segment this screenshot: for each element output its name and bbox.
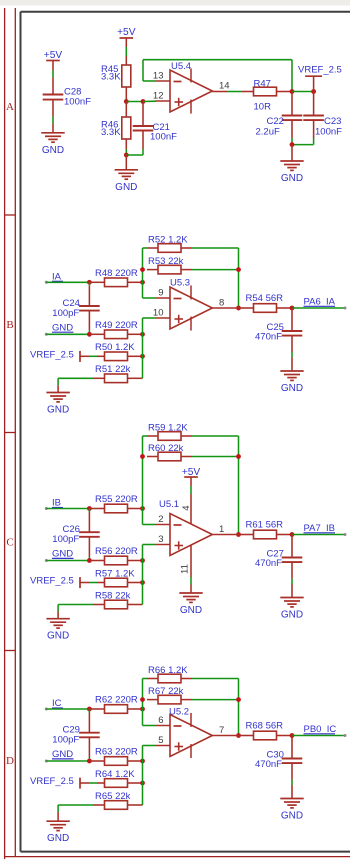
junction xyxy=(87,707,92,712)
wire VREF pin xyxy=(80,582,89,584)
svg-text:VREF_2.5: VREF_2.5 xyxy=(30,349,74,360)
wire C29 bottom net xyxy=(88,757,90,761)
wire R52 right pin xyxy=(181,247,192,249)
svg-text:R53 22k: R53 22k xyxy=(148,256,184,267)
wire feedback node vertical xyxy=(192,248,239,308)
svg-text:VREF_2.5: VREF_2.5 xyxy=(30,776,74,787)
resistor R48 xyxy=(95,268,138,287)
net label IA xyxy=(52,272,63,283)
net label PA7_IB xyxy=(304,523,336,534)
svg-text:R59 1.2K: R59 1.2K xyxy=(148,422,188,433)
wire pin 11 to GND xyxy=(190,585,192,594)
wire R45 bottom pin xyxy=(125,87,127,102)
wire R67 left pin xyxy=(147,699,158,701)
resistor R56 xyxy=(95,546,138,565)
svg-text:6: 6 xyxy=(158,715,163,726)
resistor R51 xyxy=(95,364,131,383)
junction xyxy=(140,280,145,285)
wire inverting node vertical xyxy=(143,248,157,298)
svg-text:U5.2: U5.2 xyxy=(169,707,189,718)
junction xyxy=(87,506,92,511)
svg-text:R51 22k: R51 22k xyxy=(95,364,131,375)
junction xyxy=(140,781,145,786)
pin endpoint IA xyxy=(45,281,48,284)
junction xyxy=(140,354,145,359)
svg-text:R54 56R: R54 56R xyxy=(246,293,284,304)
ground xyxy=(46,393,69,416)
junction xyxy=(140,454,145,459)
supply symbol VREF_2.5 xyxy=(30,576,80,589)
svg-text:10: 10 xyxy=(153,308,164,319)
wire non-inverting node vertical xyxy=(143,545,157,605)
junction xyxy=(236,733,241,738)
wire inverting node vertical xyxy=(143,436,157,525)
wire VREF pin xyxy=(80,782,89,784)
svg-text:13: 13 xyxy=(153,71,164,82)
svg-text:+5V: +5V xyxy=(117,27,136,38)
svg-text:R65 22k: R65 22k xyxy=(95,791,131,802)
wire C23 bottom to GND junction xyxy=(292,138,314,145)
svg-text:A: A xyxy=(6,101,14,113)
svg-text:100nF: 100nF xyxy=(64,97,91,108)
net label IC xyxy=(52,698,63,709)
wire GND input wire xyxy=(46,560,89,562)
wire R62 right pin xyxy=(128,708,143,710)
wire R64 right pin xyxy=(128,782,143,784)
svg-text:U5.3: U5.3 xyxy=(170,278,190,289)
wire C29 top pin xyxy=(88,709,90,713)
op-amp U5.4 xyxy=(153,61,230,112)
wire C23 top pin xyxy=(313,92,315,116)
svg-text:470nF: 470nF xyxy=(255,558,282,569)
wire R67 right pin xyxy=(181,699,192,701)
svg-text:R64 1.2K: R64 1.2K xyxy=(95,769,135,780)
wire IB input wire xyxy=(46,508,89,510)
ground xyxy=(46,619,69,642)
pin endpoint IC xyxy=(45,708,48,711)
wire R48 right pin xyxy=(128,281,143,283)
wire output to Rout xyxy=(239,307,254,309)
wire R54 right pin xyxy=(277,307,293,309)
svg-text:D: D xyxy=(6,755,14,767)
resistor R65 xyxy=(95,791,131,810)
svg-text:100nF: 100nF xyxy=(315,127,342,138)
junction xyxy=(311,89,316,94)
svg-text:R68 56R: R68 56R xyxy=(246,721,284,732)
wire node to pin 12 xyxy=(143,100,156,102)
wire GND drop pin xyxy=(57,812,59,821)
wire IC to R62 xyxy=(89,708,104,710)
wire R65 right pin xyxy=(128,804,143,806)
power pin stub bottom of U5.2 xyxy=(190,744,192,758)
pin endpoint GND xyxy=(45,760,48,763)
svg-text:R66 1.2K: R66 1.2K xyxy=(148,665,188,676)
svg-text:8: 8 xyxy=(219,298,224,309)
wire IC input wire xyxy=(46,708,89,710)
resistor R62 xyxy=(95,695,138,714)
junction xyxy=(236,267,241,272)
svg-text:GND: GND xyxy=(281,610,303,621)
wire +5V to C28 xyxy=(52,61,54,71)
ground xyxy=(280,371,303,394)
resistor R45 xyxy=(101,64,131,87)
wire C21 bottom pin xyxy=(142,131,144,150)
op-amp U5.1 xyxy=(156,499,224,556)
wire output pin 14 xyxy=(212,91,227,93)
resistor R52 xyxy=(148,234,188,252)
svg-text:7: 7 xyxy=(219,725,224,736)
capacitor C22 xyxy=(256,116,303,138)
wire R50 right pin xyxy=(128,355,143,357)
svg-text:470nF: 470nF xyxy=(255,759,282,770)
wire R66 right pin xyxy=(181,678,192,680)
svg-text:C: C xyxy=(6,537,13,549)
wire R51 right pin xyxy=(128,377,143,379)
svg-text:GND: GND xyxy=(47,833,69,844)
wire GND drop pin xyxy=(57,612,59,619)
ground xyxy=(280,799,303,822)
svg-text:GND: GND xyxy=(281,383,303,394)
resistor R50 xyxy=(95,342,135,361)
svg-text:3.3K: 3.3K xyxy=(101,72,121,83)
net label GND xyxy=(52,749,74,760)
supply symbol VREF_2.5 xyxy=(30,349,80,362)
wire IB to R55 xyxy=(89,508,104,510)
svg-text:3.3K: 3.3K xyxy=(101,127,121,138)
junction xyxy=(290,142,295,147)
wire R60 right net xyxy=(192,456,239,458)
junction xyxy=(87,280,92,285)
svg-text:R62 220R: R62 220R xyxy=(95,695,138,706)
capacitor C25 xyxy=(255,322,302,343)
window top strip xyxy=(0,0,350,6)
wire C24 bottom net xyxy=(88,330,90,334)
junction xyxy=(140,558,145,563)
svg-text:R50 1.2K: R50 1.2K xyxy=(95,342,135,353)
svg-text:470nF: 470nF xyxy=(255,332,282,343)
junction xyxy=(140,707,145,712)
resistor R46 xyxy=(101,117,131,139)
wire C28 bottom pin xyxy=(52,100,54,117)
frame outer vertical line xyxy=(4,8,6,859)
wire feedback node vertical xyxy=(192,679,239,736)
wire R46 to GND junction xyxy=(125,149,127,155)
svg-text:2: 2 xyxy=(158,514,163,525)
wire C22 top pin xyxy=(291,92,293,116)
resistor R58 xyxy=(95,590,131,609)
junction xyxy=(140,267,145,272)
wire output pin xyxy=(212,735,238,737)
wire R57 right pin xyxy=(128,582,143,584)
wire R45 top pin xyxy=(125,56,127,65)
pin endpoint PB0_IC xyxy=(344,734,347,737)
junction xyxy=(140,506,145,511)
svg-text:R58 22k: R58 22k xyxy=(95,590,131,601)
wire C24 top pin xyxy=(88,282,90,286)
wire R50 left pin xyxy=(97,355,105,357)
frame inner vertical line xyxy=(14,8,16,857)
wire R56 right pin xyxy=(128,560,143,562)
resistor R49 xyxy=(95,320,138,339)
wire R53 right pin xyxy=(181,269,192,271)
svg-text:R48 220R: R48 220R xyxy=(95,268,138,279)
pin endpoint GND xyxy=(45,333,48,336)
capacitor C26 xyxy=(52,524,99,545)
wire C26 top pin red xyxy=(88,512,90,532)
svg-text:GND: GND xyxy=(47,631,69,642)
+5V supply symbol xyxy=(182,467,201,478)
wire R46 bottom pin xyxy=(125,139,127,149)
wire output net wire xyxy=(292,735,345,737)
sheet border bottom xyxy=(21,851,350,853)
svg-text:C22: C22 xyxy=(267,116,284,127)
svg-text:VREF_2.5: VREF_2.5 xyxy=(298,65,342,76)
svg-text:C23: C23 xyxy=(324,116,341,127)
wire C21 to junction xyxy=(126,149,143,155)
junction xyxy=(236,454,241,459)
wire C26 bottom net xyxy=(88,557,90,561)
wire GND pin under R46 xyxy=(125,155,127,170)
+5V supply symbol xyxy=(117,27,136,38)
net label GND xyxy=(52,322,74,333)
svg-text:4: 4 xyxy=(181,505,192,510)
wire GND pin out xyxy=(291,785,293,799)
wire C30 top pin xyxy=(291,736,293,759)
wire VREF node wire xyxy=(292,91,314,93)
wire R65 to GND xyxy=(58,805,93,812)
wire pin 4 into op-amp xyxy=(190,494,192,524)
wire C21 top pin xyxy=(142,102,144,127)
svg-text:GND: GND xyxy=(47,405,69,416)
op-amp U5.3 xyxy=(153,278,224,330)
wire pin 11 from op-amp xyxy=(190,545,192,577)
svg-text:R49 220R: R49 220R xyxy=(95,320,138,331)
svg-text:9: 9 xyxy=(158,288,163,299)
resistor R57 xyxy=(95,568,135,587)
net label PB0_IC xyxy=(304,724,337,735)
junction xyxy=(87,332,92,337)
svg-text:100nF: 100nF xyxy=(150,132,177,143)
wire GND to R56 xyxy=(89,560,104,562)
wire R51 left pin xyxy=(93,377,105,379)
power pin stub bottom of U5.4 xyxy=(190,100,192,114)
svg-text:12: 12 xyxy=(153,91,164,102)
wire C27 bottom pin xyxy=(291,562,293,578)
svg-text:R47: R47 xyxy=(254,78,271,89)
wire +5V to C28 net xyxy=(52,71,54,78)
wire R53 right net xyxy=(192,269,239,271)
pin endpoint GND xyxy=(45,559,48,562)
wire R60 right pin xyxy=(181,456,192,458)
frame divider C/D xyxy=(5,650,16,652)
resistor R63 xyxy=(95,747,138,766)
wire C29 bottom pin xyxy=(88,737,90,757)
wire GND input wire xyxy=(46,333,89,335)
svg-text:R52 1.2K: R52 1.2K xyxy=(148,234,188,245)
svg-text:100pF: 100pF xyxy=(52,308,79,319)
op-amp U5.2 xyxy=(156,707,224,757)
junction xyxy=(290,306,295,311)
wire C28 to GND net xyxy=(52,117,54,124)
wire non-inverting node vertical xyxy=(143,746,157,806)
wire VREF net xyxy=(89,355,97,357)
wire C23 bottom pin xyxy=(313,120,315,138)
junction xyxy=(124,153,129,158)
capacitor C21 xyxy=(133,122,177,143)
wire C26 top pin xyxy=(88,509,90,513)
junction xyxy=(140,697,145,702)
wire R47 left pin xyxy=(242,91,254,93)
wire +5V to R45 net xyxy=(125,47,127,56)
svg-text:3: 3 xyxy=(158,534,163,545)
wire GND pin out xyxy=(291,584,293,598)
svg-text:+5V: +5V xyxy=(182,467,201,478)
ground xyxy=(115,170,138,193)
wire R53 left pin xyxy=(147,269,158,271)
capacitor C27 xyxy=(255,549,302,570)
capacitor C28 xyxy=(43,87,91,108)
wire non-inverting node vertical xyxy=(143,318,157,378)
junction xyxy=(140,580,145,585)
wire C27 top pin xyxy=(291,535,293,558)
junction xyxy=(124,99,129,104)
wire C25 bottom pin xyxy=(291,336,293,352)
wire output pin xyxy=(212,534,238,536)
wire R46 top pin xyxy=(125,102,127,118)
wire R65 left pin xyxy=(93,804,105,806)
frame divider A/B xyxy=(5,214,16,216)
resistor R67 xyxy=(148,686,184,704)
resistor R55 xyxy=(95,494,138,513)
wire output to Rout xyxy=(239,534,254,536)
wire GND input wire xyxy=(46,760,89,762)
junction xyxy=(290,89,295,94)
resistor R61 xyxy=(246,520,284,539)
svg-text:GND: GND xyxy=(281,811,303,822)
junction xyxy=(236,306,241,311)
wire VREF net xyxy=(89,582,97,584)
resistor R59 xyxy=(148,422,188,440)
wire GND drop pin xyxy=(57,385,59,392)
wire output net to R47 xyxy=(227,91,242,93)
junction xyxy=(290,532,295,537)
wire R45/R46 node to C21 xyxy=(126,101,143,103)
wire R58 left pin xyxy=(93,604,105,606)
power pin stub top of U5.3 xyxy=(190,285,192,299)
junction xyxy=(236,697,241,702)
wire R57 left pin xyxy=(97,582,105,584)
net label GND xyxy=(52,549,74,560)
wire GND pin out xyxy=(291,358,293,372)
sheet border top xyxy=(21,11,350,13)
pin endpoint PA7_IB xyxy=(344,533,347,536)
resistor R66 xyxy=(148,665,188,683)
wire C27 bottom net xyxy=(291,579,293,585)
wire R59 right pin xyxy=(181,435,192,437)
resistor R64 xyxy=(95,769,135,788)
svg-text:2.2uF: 2.2uF xyxy=(256,127,280,138)
wire C25 top pin xyxy=(291,308,293,331)
wire R61 right pin xyxy=(277,534,293,536)
wire GND to R49 xyxy=(89,333,104,335)
svg-text:100pF: 100pF xyxy=(52,534,79,545)
supply symbol VREF_2.5 xyxy=(30,776,80,789)
wire IA to R48 xyxy=(89,281,104,283)
junction xyxy=(141,99,146,104)
ground xyxy=(280,161,303,184)
wire R49 right pin xyxy=(128,333,143,335)
wire R66 left pin xyxy=(147,678,158,680)
resistor R54 xyxy=(246,293,284,312)
wire C24 top pin red xyxy=(88,286,90,306)
svg-text:GND: GND xyxy=(42,145,64,156)
wire C26 bottom pin xyxy=(88,537,90,557)
pin endpoint PA6_IA xyxy=(344,307,347,310)
wire +5V to R45 pin xyxy=(125,38,127,47)
wire R68 right pin xyxy=(277,735,293,737)
ground xyxy=(280,598,303,621)
ground xyxy=(46,821,69,844)
svg-text:1: 1 xyxy=(219,524,224,535)
svg-text:U5.4: U5.4 xyxy=(171,61,191,72)
svg-text:R67 22k: R67 22k xyxy=(148,686,184,697)
wire C24 bottom pin xyxy=(88,311,90,331)
junction xyxy=(290,733,295,738)
svg-text:14: 14 xyxy=(219,81,230,92)
wire VREF bar stem xyxy=(313,76,315,91)
frame divider B/C xyxy=(5,432,16,434)
svg-text:R61 56R: R61 56R xyxy=(246,520,284,531)
wire R64 left pin xyxy=(97,782,105,784)
wire pin 11 net xyxy=(190,577,192,585)
wire output net wire xyxy=(292,534,345,536)
wire R67 right net xyxy=(192,699,239,701)
wire R59 left pin xyxy=(147,435,158,437)
supply symbol VREF_2.5 xyxy=(298,65,342,77)
wire VREF net xyxy=(89,782,97,784)
wire C30 bottom pin xyxy=(291,763,293,779)
power pin stub bottom of U5.3 xyxy=(190,317,192,331)
ground xyxy=(179,593,202,616)
svg-text:5: 5 xyxy=(158,735,163,746)
svg-text:R63 220R: R63 220R xyxy=(95,747,138,758)
svg-text:U5.1: U5.1 xyxy=(159,499,179,510)
junction xyxy=(87,759,92,764)
svg-text:GND: GND xyxy=(115,182,137,193)
svg-text:B: B xyxy=(6,319,13,331)
wire GND pin xyxy=(52,124,54,133)
svg-text:11: 11 xyxy=(180,564,191,574)
wire C30 bottom net xyxy=(291,780,293,786)
power pin stub top of U5.4 xyxy=(190,68,192,82)
resistor R47 xyxy=(254,78,277,95)
wire R47 right pin xyxy=(277,91,293,93)
net label IB xyxy=(52,498,63,509)
resistor R68 xyxy=(246,721,284,740)
wire output net wire xyxy=(292,307,345,309)
wire pin 4 net xyxy=(190,486,192,494)
wire feedback pin 13 net xyxy=(143,60,292,92)
wire R60 left pin xyxy=(147,456,158,458)
svg-text:+5V: +5V xyxy=(44,50,63,61)
junction xyxy=(236,532,241,537)
wire R58 to GND xyxy=(58,605,93,612)
sheet border left xyxy=(20,12,22,852)
wire R63 right pin xyxy=(128,760,143,762)
wire C29 top pin red xyxy=(88,713,90,733)
pin endpoint IB xyxy=(45,507,48,510)
junction xyxy=(140,759,145,764)
